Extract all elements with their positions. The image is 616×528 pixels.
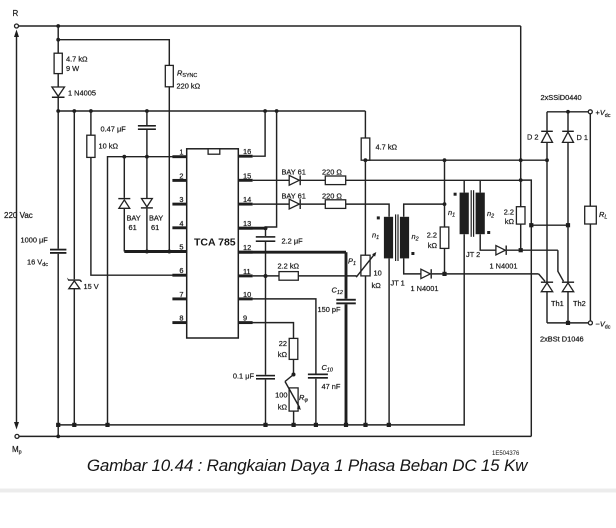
- scan artifact band: [0, 489, 616, 493]
- capacitor C10 47nF: [308, 363, 341, 425]
- svg-text:JT 2: JT 2: [466, 250, 480, 259]
- svg-text:61: 61: [129, 223, 137, 232]
- svg-text:1E504376: 1E504376: [492, 451, 520, 457]
- wire Th2 gate run: [558, 250, 564, 281]
- wire jog JT2-top to Mp riser: [521, 180, 532, 436]
- resistor 10k: [87, 111, 119, 157]
- svg-text:47 nF: 47 nF: [322, 382, 341, 391]
- svg-text:7: 7: [179, 290, 183, 299]
- wire JT1 n2 bottom to diode: [404, 258, 421, 274]
- node square junction on D1 column: [566, 223, 570, 227]
- resistor 220ohm (pin14): [301, 191, 346, 208]
- svg-text:2xBSt D1046: 2xBSt D1046: [540, 335, 584, 344]
- svg-text:4.7 kΩ: 4.7 kΩ: [66, 55, 88, 64]
- svg-text:0.47 μF: 0.47 μF: [101, 125, 127, 134]
- node Mp terminal: [12, 434, 22, 455]
- svg-text:D 1: D 1: [577, 133, 589, 142]
- wire Th1 gate diagonal: [539, 274, 545, 281]
- wire ground bus: [58, 424, 465, 426]
- svg-text:R: R: [13, 9, 19, 18]
- wire pin10 to C10: [238, 299, 316, 374]
- svg-text:10: 10: [243, 290, 251, 299]
- svg-text:2xSSiD0440: 2xSSiD0440: [541, 93, 582, 102]
- thyristor Th1: [541, 160, 564, 323]
- svg-text:15: 15: [243, 171, 251, 180]
- wire Vs distribution line y111: [58, 110, 365, 112]
- svg-text:14: 14: [243, 195, 251, 204]
- capacitor 0.1uF: [233, 276, 275, 425]
- wire RSYNC down to pin5: [168, 87, 170, 252]
- svg-text:BAY: BAY: [127, 214, 141, 223]
- node +Vdc terminal: [588, 108, 610, 119]
- wire pin1 ground run: [108, 157, 187, 425]
- wire vsync branch: [58, 40, 169, 66]
- svg-text:15 V: 15 V: [84, 282, 99, 291]
- node dot at 520.7/180: [519, 178, 523, 182]
- capacitor C12 150pF column: [318, 252, 356, 425]
- svg-text:220 Ω: 220 Ω: [322, 168, 342, 177]
- svg-text:9 W: 9 W: [66, 64, 79, 73]
- wire pin13 thick: [238, 227, 265, 230]
- pin stubs right 16-9: [238, 147, 252, 322]
- svg-text:kΩ: kΩ: [505, 217, 515, 226]
- svg-text:150 pF: 150 pF: [318, 305, 341, 314]
- svg-text:220 Ω: 220 Ω: [322, 191, 342, 200]
- diode D1: [562, 112, 588, 225]
- diode BAY 61 (pin14): [282, 191, 306, 209]
- svg-text:1000 μF: 1000 μF: [21, 236, 49, 245]
- svg-text:1 N4001: 1 N4001: [411, 284, 439, 293]
- svg-text:220 Vac: 220 Vac: [4, 211, 33, 220]
- potentiometer P1 10k: [348, 160, 382, 425]
- potentiometer R-phi 100k: [275, 375, 308, 425]
- svg-text:JT 1: JT 1: [391, 279, 405, 288]
- node dot 22k bottom: [292, 373, 296, 377]
- zener diode 15V: [67, 111, 99, 425]
- node square junction 2.2k/diode: [442, 272, 446, 276]
- node dot Mp-1000uF: [56, 435, 60, 439]
- wire gate-node cross link: [531, 224, 568, 226]
- svg-text:Gambar 10.44 : Rangkaian Daya: Gambar 10.44 : Rangkaian Daya 1 Phasa Be…: [87, 456, 529, 475]
- node square junction on riser: [529, 223, 533, 227]
- node dots on pin5 wire: [145, 250, 171, 254]
- svg-text:11: 11: [243, 267, 251, 276]
- resistor RSYNC 220k: [165, 65, 200, 90]
- wire JT2 n1 bottom to bus end: [463, 234, 465, 425]
- pin stubs left 1-8: [172, 148, 186, 323]
- svg-text:8: 8: [179, 314, 183, 323]
- resistor 2.2k pin11: [253, 262, 357, 281]
- svg-text:61: 61: [151, 223, 159, 232]
- diode D2: [527, 112, 553, 160]
- node pin11 junction dot: [264, 274, 268, 278]
- wire -Vdc bottom run: [547, 322, 588, 324]
- node dot top bridge: [566, 110, 570, 114]
- node square junction 2.2k3/diode: [519, 248, 523, 252]
- wire 10k to pin6: [91, 157, 187, 275]
- wire Mp rail: [19, 435, 531, 437]
- 220 Vac voltage arrow: [4, 30, 33, 430]
- diode BAY 61 (pin15): [282, 168, 306, 186]
- resistor 4.7k 9W: [54, 26, 88, 74]
- diode 1N4001 (JT2): [490, 246, 558, 271]
- wire D1/D2 top bridge: [547, 111, 588, 113]
- resistor 22k: [278, 338, 298, 374]
- capacitor 0.47uF: [101, 111, 156, 157]
- svg-text:5: 5: [179, 243, 183, 252]
- resistor 4.7k (ramp): [361, 111, 397, 160]
- svg-text:BAY 61: BAY 61: [282, 191, 306, 200]
- node dot vsync tap: [56, 38, 60, 42]
- svg-text:D 2: D 2: [527, 133, 539, 142]
- wire pin15 row: [253, 179, 290, 181]
- wire pin5 thick: [124, 250, 186, 253]
- node pin13 junction dot: [264, 226, 268, 230]
- resistor 220ohm (pin15): [301, 168, 346, 185]
- svg-text:kΩ: kΩ: [278, 350, 288, 359]
- node R (phase terminal): [13, 9, 19, 28]
- node bus junction squares: [56, 423, 391, 427]
- wire pin16 riser to Vs: [253, 111, 266, 156]
- svg-text:9: 9: [243, 314, 247, 323]
- wire top supply rail: [19, 25, 521, 27]
- wire JT1 n2 to 2.2k node: [404, 204, 445, 217]
- wire right drop from top rail: [520, 26, 522, 160]
- thyristor Th2: [562, 225, 586, 323]
- wire Vref row y160: [365, 159, 547, 161]
- svg-text:10: 10: [374, 269, 382, 278]
- diode BAY 61 (left, down): [141, 157, 163, 252]
- resistor 2.2k (JT2): [504, 160, 525, 250]
- transformer JT1: [372, 214, 419, 287]
- node -Vdc terminal: [588, 320, 610, 331]
- svg-text:kΩ: kΩ: [372, 281, 382, 290]
- svg-text:2.2: 2.2: [427, 231, 437, 240]
- diode 1N4001 (JT1): [411, 269, 539, 293]
- svg-text:0.1 μF: 0.1 μF: [233, 372, 255, 381]
- svg-text:BAY: BAY: [149, 214, 163, 223]
- svg-text:BAY 61: BAY 61: [282, 168, 306, 177]
- svg-text:1 N4001: 1 N4001: [490, 262, 518, 271]
- transformer JT2: [448, 180, 494, 259]
- svg-text:100: 100: [275, 391, 287, 400]
- wire pin13 logic riser to Vs: [266, 111, 277, 227]
- node dots on y160 row: [364, 158, 549, 162]
- svg-text:Th1: Th1: [551, 299, 564, 308]
- svg-text:16: 16: [243, 147, 251, 156]
- svg-text:2.2: 2.2: [504, 208, 514, 217]
- svg-text:4.7 kΩ: 4.7 kΩ: [376, 143, 398, 152]
- node square junction Th2 bottom: [566, 321, 570, 325]
- svg-text:10 kΩ: 10 kΩ: [99, 142, 119, 151]
- svg-text:3: 3: [179, 195, 183, 204]
- resistor RL load: [585, 114, 608, 321]
- svg-text:22: 22: [279, 339, 287, 348]
- wire JT1 n1 bottom to bus: [388, 258, 390, 425]
- wire pin9 to 22k: [238, 323, 293, 339]
- diode 1N4005: [52, 74, 96, 111]
- svg-text:1 N4005: 1 N4005: [68, 89, 96, 98]
- wire pin12 thick run: [238, 251, 346, 254]
- capacitor 2.2uF pin12: [256, 228, 303, 276]
- svg-text:2.2 μF: 2.2 μF: [282, 237, 304, 246]
- svg-text:220 kΩ: 220 kΩ: [177, 82, 201, 91]
- svg-text:TCA 785: TCA 785: [194, 237, 236, 249]
- node junction dot on top rail: [56, 24, 60, 28]
- svg-text:1: 1: [179, 148, 183, 157]
- svg-text:4: 4: [179, 219, 183, 228]
- capacitor 1000uF 16VDC: [21, 111, 67, 436]
- resistor 2.2k (JT1): [427, 160, 449, 274]
- svg-text:kΩ: kΩ: [428, 241, 438, 250]
- node dot JT1 n2 top junction: [443, 202, 447, 206]
- svg-text:2.2 kΩ: 2.2 kΩ: [278, 262, 300, 271]
- svg-text:Th2: Th2: [573, 299, 586, 308]
- wire pin14 to JT1 n1: [346, 204, 389, 217]
- wire pin15 long run to JT2 top: [346, 179, 521, 181]
- diode BAY 61 (left, up): [118, 157, 141, 252]
- op-amp U1 TCA 785 body: [187, 149, 239, 338]
- wire JT2 n2 bottom to diode: [480, 234, 496, 250]
- node dots on Vs line: [56, 109, 278, 113]
- svg-text:2: 2: [179, 171, 183, 180]
- node dots on pin1 wire: [122, 155, 148, 159]
- svg-text:kΩ: kΩ: [278, 403, 288, 412]
- svg-text:6: 6: [179, 266, 183, 275]
- wire pin14 row: [253, 203, 290, 205]
